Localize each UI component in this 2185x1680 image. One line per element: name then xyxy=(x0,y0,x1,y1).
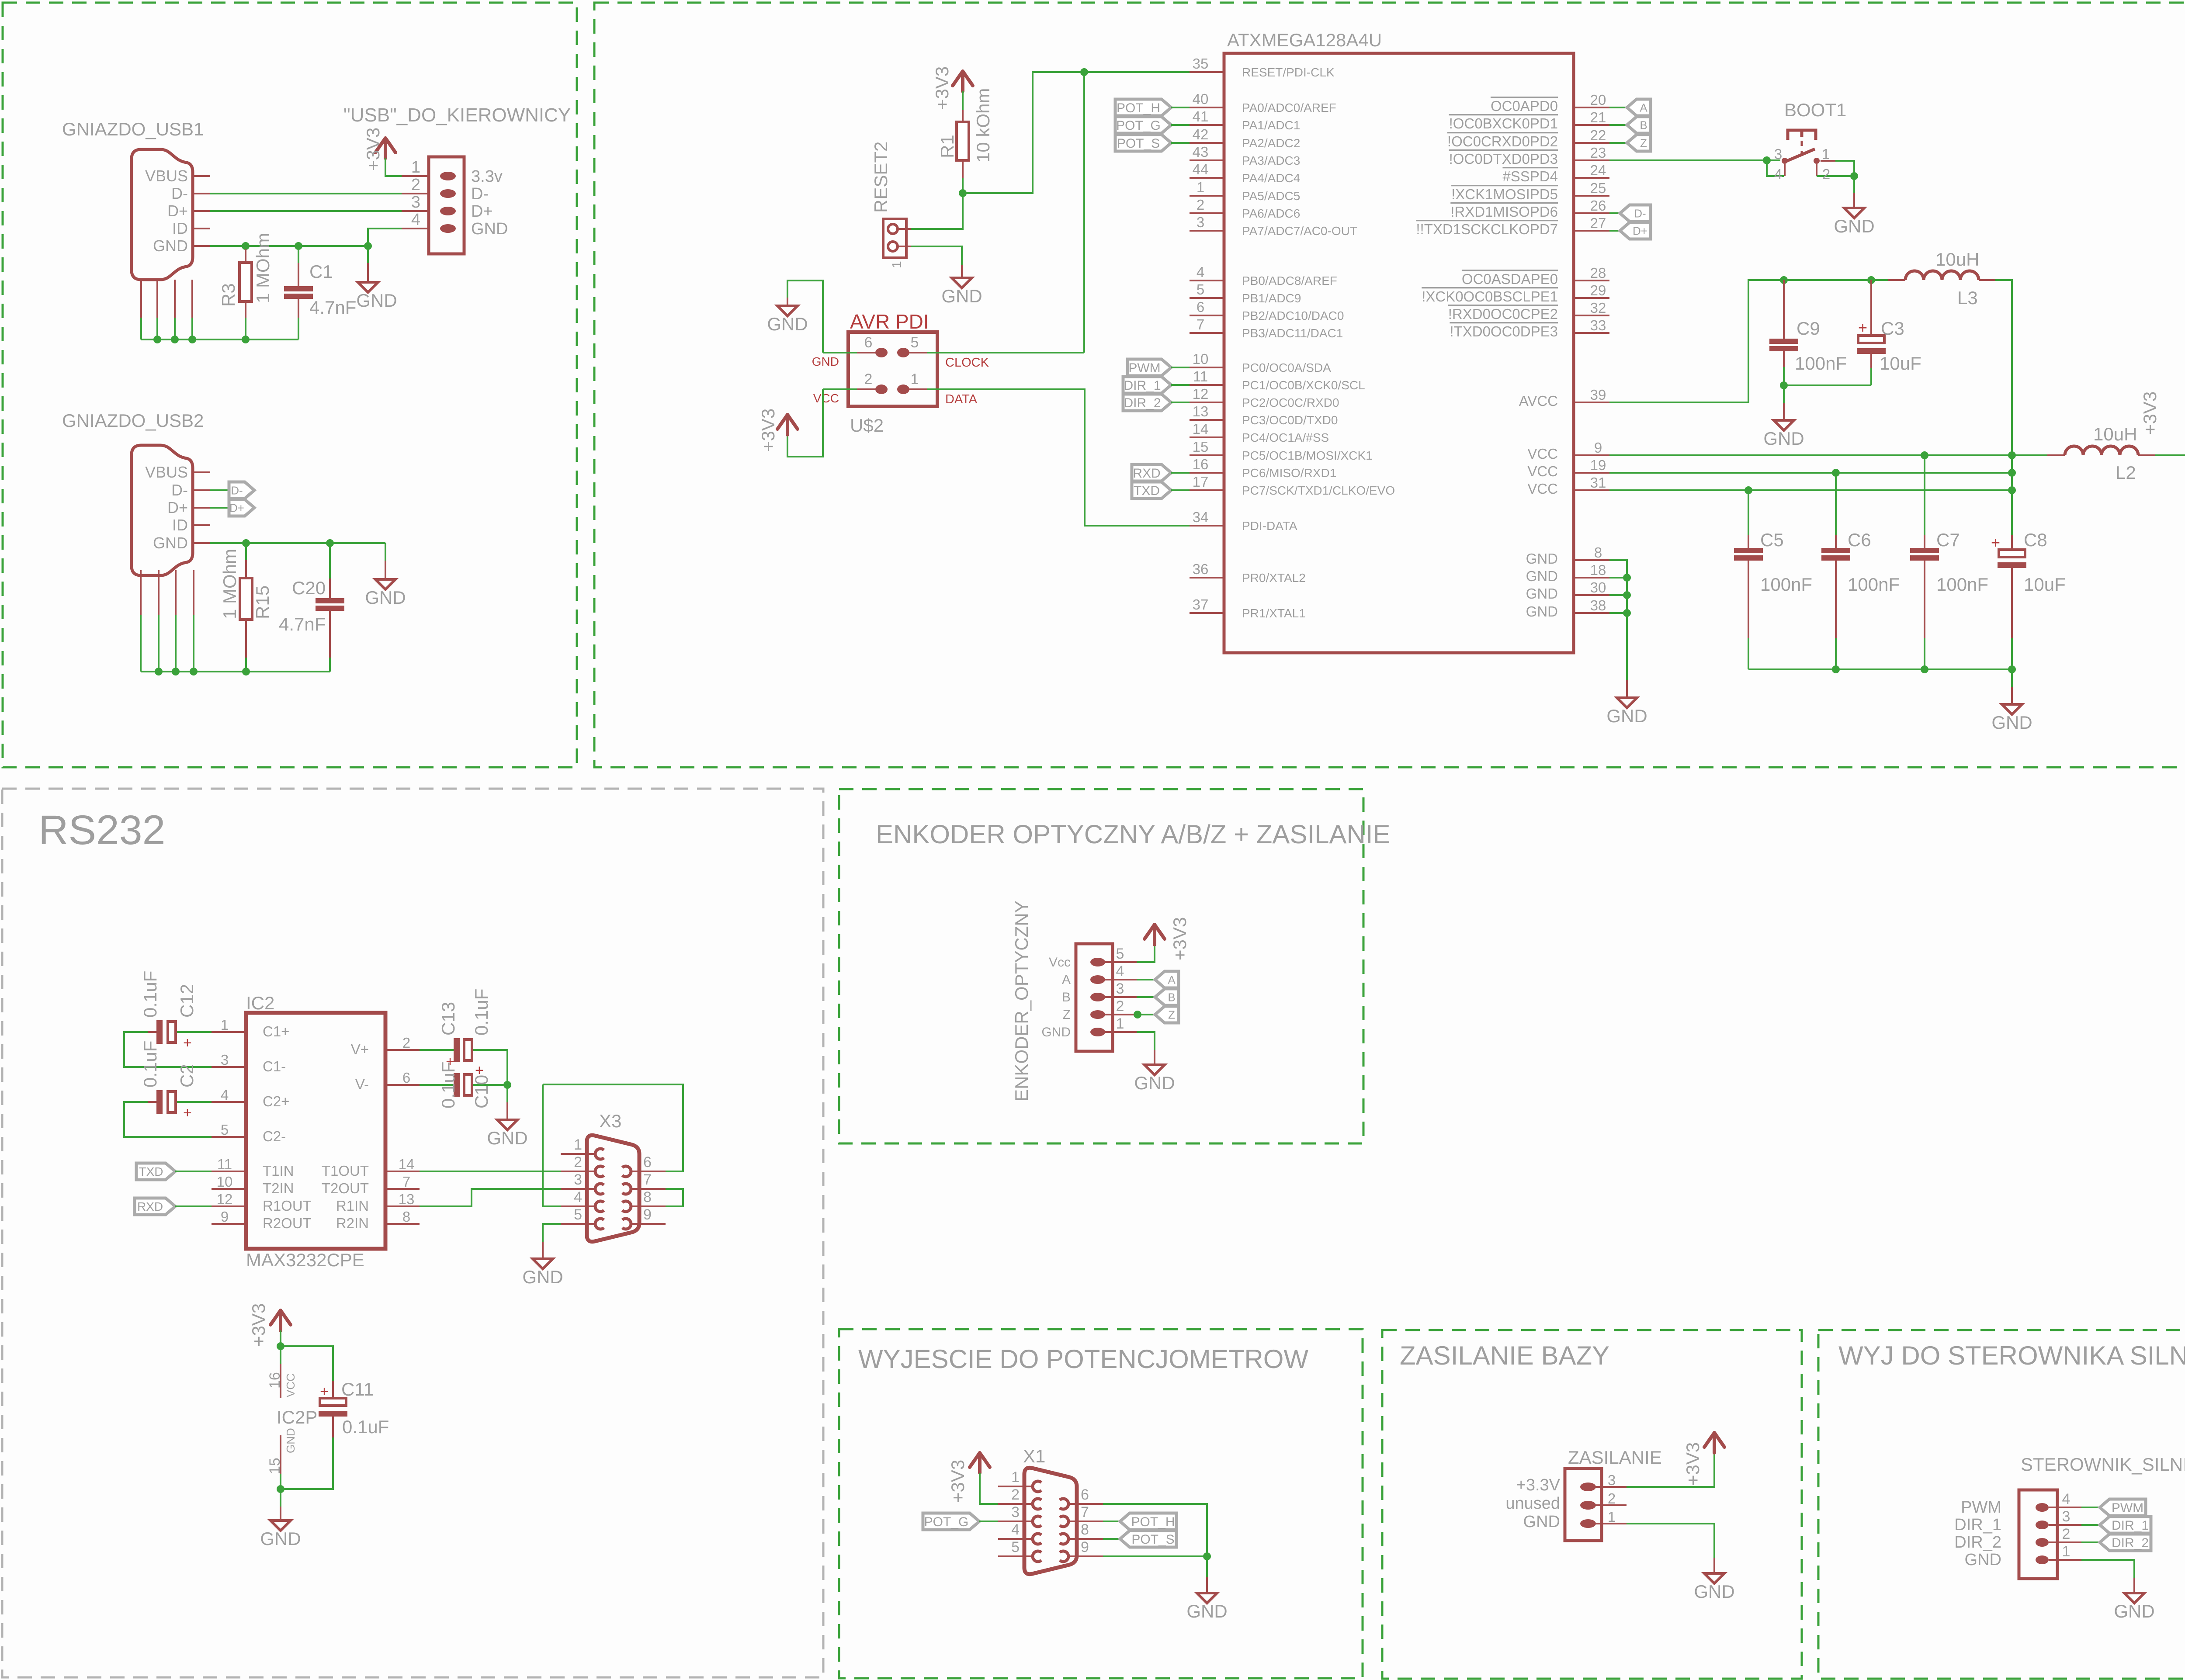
svg-text:3: 3 xyxy=(411,193,420,211)
svg-text:B: B xyxy=(1168,991,1175,1004)
svg-text:GND: GND xyxy=(365,587,406,608)
svg-text:30: 30 xyxy=(1590,579,1606,596)
svg-text:4: 4 xyxy=(574,1189,582,1205)
svg-text:5: 5 xyxy=(1197,281,1204,298)
svg-text:C7: C7 xyxy=(1936,530,1960,550)
svg-text:4: 4 xyxy=(2062,1491,2071,1507)
svg-text:37: 37 xyxy=(1193,596,1209,613)
svg-text:C5: C5 xyxy=(1760,530,1784,550)
svg-text:T1OUT: T1OUT xyxy=(322,1163,369,1179)
svg-text:+: + xyxy=(1858,319,1867,336)
svg-text:5: 5 xyxy=(1011,1539,1020,1555)
svg-text:A: A xyxy=(1062,973,1071,987)
svg-text:PA5/ADC5: PA5/ADC5 xyxy=(1242,189,1300,203)
svg-text:43: 43 xyxy=(1193,144,1209,160)
svg-text:36: 36 xyxy=(1193,561,1209,577)
svg-text:3: 3 xyxy=(1116,980,1124,997)
svg-text:!OC0DTXD0PD3: !OC0DTXD0PD3 xyxy=(1449,151,1558,167)
svg-text:D+: D+ xyxy=(229,501,244,514)
svg-text:GND: GND xyxy=(1763,428,1804,449)
svg-text:1 MOhm: 1 MOhm xyxy=(219,549,240,619)
svg-text:C10: C10 xyxy=(471,1075,492,1108)
svg-text:10uF: 10uF xyxy=(1880,353,1921,374)
svg-text:6: 6 xyxy=(643,1154,652,1171)
svg-text:PA7/ADC7/AC0-OUT: PA7/ADC7/AC0-OUT xyxy=(1242,224,1357,238)
svg-text:A: A xyxy=(1168,973,1176,986)
svg-text:GNIAZDO_USB2: GNIAZDO_USB2 xyxy=(62,410,204,431)
svg-text:PC6/MISO/RXD1: PC6/MISO/RXD1 xyxy=(1242,466,1336,480)
svg-text:GNIAZDO_USB1: GNIAZDO_USB1 xyxy=(62,119,204,139)
svg-text:ENKODER OPTYCZNY A/B/Z + ZASIL: ENKODER OPTYCZNY A/B/Z + ZASILANIE xyxy=(876,820,1391,849)
svg-text:PC5/OC1B/MOSI/XCK1: PC5/OC1B/MOSI/XCK1 xyxy=(1242,449,1373,462)
svg-text:31: 31 xyxy=(1590,475,1606,491)
svg-text:PDI-DATA: PDI-DATA xyxy=(1242,519,1297,533)
svg-text:C1: C1 xyxy=(309,261,333,282)
svg-text:AVR PDI: AVR PDI xyxy=(850,310,929,333)
svg-text:17: 17 xyxy=(1193,474,1209,490)
svg-text:GND: GND xyxy=(1526,585,1558,602)
svg-text:+3V3: +3V3 xyxy=(1682,1442,1703,1486)
svg-text:V+: V+ xyxy=(351,1041,369,1057)
svg-text:GND: GND xyxy=(1694,1581,1734,1602)
svg-text:VBUS: VBUS xyxy=(145,167,188,185)
svg-text:9: 9 xyxy=(643,1206,652,1223)
svg-text:38: 38 xyxy=(1590,597,1606,613)
svg-text:PB1/ADC9: PB1/ADC9 xyxy=(1242,291,1301,305)
svg-text:R1OUT: R1OUT xyxy=(263,1198,312,1214)
svg-text:5: 5 xyxy=(1116,946,1124,962)
svg-text:STEROWNIK_SILNIKA_DC: STEROWNIK_SILNIKA_DC xyxy=(2021,1454,2185,1475)
svg-text:PA2/ADC2: PA2/ADC2 xyxy=(1242,136,1300,150)
svg-text:RESET2: RESET2 xyxy=(871,142,891,213)
svg-text:DIR_1: DIR_1 xyxy=(1954,1516,2001,1534)
svg-text:10 kOhm: 10 kOhm xyxy=(973,88,993,163)
svg-text:PB2/ADC10/DAC0: PB2/ADC10/DAC0 xyxy=(1242,309,1344,322)
svg-text:8: 8 xyxy=(402,1209,410,1225)
svg-text:9: 9 xyxy=(221,1209,229,1225)
svg-text:16: 16 xyxy=(1193,456,1209,472)
svg-text:VCC: VCC xyxy=(1527,481,1558,497)
svg-text:GND: GND xyxy=(260,1528,301,1549)
svg-text:0.1uF: 0.1uF xyxy=(140,1041,160,1088)
svg-text:!XCK1MOSIPD5: !XCK1MOSIPD5 xyxy=(1451,186,1558,202)
svg-text:PA4/ADC4: PA4/ADC4 xyxy=(1242,171,1300,185)
svg-text:C2: C2 xyxy=(177,1064,197,1088)
svg-text:11: 11 xyxy=(217,1156,232,1172)
svg-text:unused: unused xyxy=(1505,1494,1560,1513)
svg-text:C6: C6 xyxy=(1848,530,1871,550)
svg-text:39: 39 xyxy=(1590,387,1606,403)
svg-text:4: 4 xyxy=(1011,1521,1020,1538)
svg-text:"USB"_DO_KIEROWNICY: "USB"_DO_KIEROWNICY xyxy=(343,104,571,126)
svg-text:R1IN: R1IN xyxy=(336,1198,369,1214)
svg-text:1: 1 xyxy=(411,158,420,177)
svg-text:15: 15 xyxy=(267,1458,283,1474)
svg-text:ATXMEGA128A4U: ATXMEGA128A4U xyxy=(1227,30,1382,50)
svg-text:2: 2 xyxy=(574,1154,582,1171)
svg-text:5: 5 xyxy=(574,1206,582,1223)
svg-text:6: 6 xyxy=(402,1070,410,1086)
svg-text:4.7nF: 4.7nF xyxy=(279,614,326,634)
svg-text:GND: GND xyxy=(1991,712,2032,733)
svg-text:1: 1 xyxy=(1822,146,1830,162)
svg-text:D+: D+ xyxy=(471,202,493,221)
svg-text:+3V3: +3V3 xyxy=(2140,391,2160,435)
svg-text:B: B xyxy=(1640,118,1647,132)
svg-text:2: 2 xyxy=(1011,1486,1020,1503)
svg-text:2: 2 xyxy=(411,176,420,194)
svg-text:5: 5 xyxy=(221,1122,229,1138)
svg-text:!RXD1MISOPD6: !RXD1MISOPD6 xyxy=(1450,204,1558,220)
svg-text:Z: Z xyxy=(1640,136,1647,149)
svg-text:PC0/OC0A/SDA: PC0/OC0A/SDA xyxy=(1242,361,1331,374)
svg-text:+3V3: +3V3 xyxy=(947,1460,968,1503)
svg-text:16: 16 xyxy=(267,1372,283,1389)
svg-text:PA3/ADC3: PA3/ADC3 xyxy=(1242,154,1300,167)
svg-text:ZASILANIE: ZASILANIE xyxy=(1568,1447,1662,1468)
svg-text:#SSPD4: #SSPD4 xyxy=(1502,168,1558,184)
svg-text:PWM: PWM xyxy=(2112,1501,2143,1515)
svg-text:D+: D+ xyxy=(167,202,188,220)
svg-text:8: 8 xyxy=(1081,1521,1089,1538)
svg-text:GND: GND xyxy=(2114,1601,2154,1621)
svg-text:3.3v: 3.3v xyxy=(471,167,503,186)
svg-text:14: 14 xyxy=(1193,421,1209,437)
svg-text:L3: L3 xyxy=(1957,288,1978,308)
svg-text:!OC0CRXD0PD2: !OC0CRXD0PD2 xyxy=(1447,133,1558,149)
svg-text:2: 2 xyxy=(402,1035,410,1051)
svg-text:5: 5 xyxy=(911,334,919,351)
svg-text:MAX3232CPE: MAX3232CPE xyxy=(246,1250,364,1270)
svg-text:GND: GND xyxy=(487,1128,527,1148)
svg-text:3: 3 xyxy=(221,1052,229,1068)
svg-text:!OC0BXCK0PD1: !OC0BXCK0PD1 xyxy=(1449,115,1558,132)
svg-text:DIR_1: DIR_1 xyxy=(1124,378,1161,393)
svg-text:PB0/ADC8/AREF: PB0/ADC8/AREF xyxy=(1242,274,1337,288)
svg-text:WYJESCIE DO POTENCJOMETROW: WYJESCIE DO POTENCJOMETROW xyxy=(858,1344,1308,1374)
svg-text:RXD: RXD xyxy=(1133,466,1160,481)
svg-text:33: 33 xyxy=(1590,317,1606,333)
svg-text:!TXD0OC0DPE3: !TXD0OC0DPE3 xyxy=(1450,323,1558,339)
svg-text:3: 3 xyxy=(2062,1508,2071,1525)
svg-text:6: 6 xyxy=(1081,1486,1089,1503)
svg-text:C8: C8 xyxy=(2024,530,2047,550)
svg-text:IC2P: IC2P xyxy=(277,1407,317,1427)
svg-text:+3.3V: +3.3V xyxy=(1516,1476,1561,1494)
svg-text:PC3/OC0D/TXD0: PC3/OC0D/TXD0 xyxy=(1242,413,1338,427)
svg-text:PB3/ADC11/DAC1: PB3/ADC11/DAC1 xyxy=(1242,326,1343,340)
svg-text:D-: D- xyxy=(171,184,188,202)
svg-text:40: 40 xyxy=(1193,91,1209,107)
svg-text:GND: GND xyxy=(812,355,839,368)
svg-text:GND: GND xyxy=(1134,1073,1175,1093)
svg-text:L2: L2 xyxy=(2116,462,2136,483)
svg-text:V-: V- xyxy=(355,1076,369,1092)
svg-text:4: 4 xyxy=(1116,963,1124,980)
svg-text:28: 28 xyxy=(1590,265,1606,281)
svg-text:100nF: 100nF xyxy=(1936,574,1988,595)
svg-text:15: 15 xyxy=(1193,439,1209,455)
svg-text:B: B xyxy=(1062,990,1071,1005)
svg-text:34: 34 xyxy=(1193,509,1209,525)
svg-text:4: 4 xyxy=(1197,264,1204,280)
svg-text:Z: Z xyxy=(1168,1008,1175,1021)
svg-text:1: 1 xyxy=(2062,1543,2071,1560)
svg-text:2: 2 xyxy=(2062,1526,2071,1542)
svg-text:TXD: TXD xyxy=(139,1165,163,1178)
svg-text:VCC: VCC xyxy=(284,1373,297,1397)
svg-text:GND: GND xyxy=(153,534,188,552)
svg-text:41: 41 xyxy=(1193,108,1209,125)
svg-text:AVCC: AVCC xyxy=(1519,393,1558,409)
svg-text:GND: GND xyxy=(1526,568,1558,584)
svg-text:A: A xyxy=(1640,101,1647,114)
svg-text:PWM: PWM xyxy=(1961,1498,2001,1517)
svg-text:GND: GND xyxy=(1523,1513,1560,1531)
svg-text:1 MOhm: 1 MOhm xyxy=(253,233,273,303)
svg-text:D+: D+ xyxy=(1633,224,1647,237)
svg-text:C3: C3 xyxy=(1881,318,1904,339)
svg-text:4: 4 xyxy=(1774,166,1782,182)
svg-text:C2+: C2+ xyxy=(263,1093,289,1109)
svg-text:PC7/SCK/TXD1/CLKO/EVO: PC7/SCK/TXD1/CLKO/EVO xyxy=(1242,484,1395,497)
svg-text:25: 25 xyxy=(1590,180,1606,196)
svg-text:8: 8 xyxy=(643,1189,652,1205)
svg-text:POT_S: POT_S xyxy=(1131,1532,1174,1547)
svg-text:Z: Z xyxy=(1063,1008,1071,1022)
svg-text:13: 13 xyxy=(399,1191,415,1207)
svg-text:18: 18 xyxy=(1590,562,1606,578)
svg-text:+: + xyxy=(183,1035,192,1051)
svg-text:GND: GND xyxy=(767,314,808,334)
svg-text:1: 1 xyxy=(1116,1015,1124,1032)
svg-text:6: 6 xyxy=(1197,299,1204,315)
svg-text:PA0/ADC0/AREF: PA0/ADC0/AREF xyxy=(1242,101,1336,114)
svg-text:PA6/ADC6: PA6/ADC6 xyxy=(1242,207,1300,220)
svg-text:26: 26 xyxy=(1590,197,1606,214)
svg-text:C12: C12 xyxy=(177,984,197,1018)
svg-text:R2IN: R2IN xyxy=(336,1215,369,1231)
svg-text:VBUS: VBUS xyxy=(145,463,188,481)
svg-text:X3: X3 xyxy=(599,1111,621,1131)
svg-text:GND: GND xyxy=(941,286,982,306)
svg-text:0.1uF: 0.1uF xyxy=(140,971,160,1018)
svg-text:1: 1 xyxy=(1011,1469,1020,1486)
svg-text:2: 2 xyxy=(1608,1490,1616,1507)
svg-text:RS232: RS232 xyxy=(38,807,165,853)
svg-text:R2OUT: R2OUT xyxy=(263,1215,312,1231)
svg-text:D+: D+ xyxy=(167,499,188,516)
svg-text:21: 21 xyxy=(1590,109,1606,125)
svg-text:GND: GND xyxy=(153,237,188,255)
svg-text:3: 3 xyxy=(1608,1472,1616,1488)
svg-text:32: 32 xyxy=(1590,300,1606,316)
svg-text:RXD: RXD xyxy=(137,1200,163,1213)
svg-text:35: 35 xyxy=(1193,55,1209,72)
svg-text:C1-: C1- xyxy=(263,1058,286,1074)
svg-text:OC0APD0: OC0APD0 xyxy=(1491,98,1558,114)
svg-text:U$2: U$2 xyxy=(850,415,884,436)
svg-text:100nF: 100nF xyxy=(1795,353,1847,374)
svg-text:19: 19 xyxy=(1590,457,1606,473)
svg-text:23: 23 xyxy=(1590,145,1606,161)
svg-text:IC2: IC2 xyxy=(246,993,274,1013)
svg-text:ID: ID xyxy=(172,219,188,237)
svg-text:GND: GND xyxy=(1186,1601,1227,1621)
svg-text:R15: R15 xyxy=(252,585,273,619)
svg-text:PC1/OC0B/XCK0/SCL: PC1/OC0B/XCK0/SCL xyxy=(1242,378,1365,392)
svg-text:X1: X1 xyxy=(1023,1446,1045,1466)
svg-text:C9: C9 xyxy=(1797,318,1820,339)
svg-text:1: 1 xyxy=(890,261,904,268)
svg-text:DIR_2: DIR_2 xyxy=(1954,1533,2001,1552)
svg-text:12: 12 xyxy=(217,1191,233,1207)
svg-text:DIR_2: DIR_2 xyxy=(2112,1536,2149,1550)
svg-text:3: 3 xyxy=(1197,214,1204,230)
svg-text:20: 20 xyxy=(1590,92,1606,108)
svg-text:24: 24 xyxy=(1590,162,1606,178)
svg-text:GND: GND xyxy=(1041,1025,1071,1039)
svg-text:ZASILANIE BAZY: ZASILANIE BAZY xyxy=(1400,1341,1609,1370)
svg-text:PC2/OC0C/RXD0: PC2/OC0C/RXD0 xyxy=(1242,396,1339,409)
svg-text:R1: R1 xyxy=(937,135,957,158)
svg-text:10uF: 10uF xyxy=(2024,574,2066,595)
svg-text:RESET/PDI-CLK: RESET/PDI-CLK xyxy=(1242,66,1335,79)
svg-text:1: 1 xyxy=(1608,1509,1616,1525)
svg-text:CLOCK: CLOCK xyxy=(945,356,989,370)
svg-text:4: 4 xyxy=(411,211,420,229)
svg-text:6: 6 xyxy=(864,334,873,351)
svg-text:PR0/XTAL2: PR0/XTAL2 xyxy=(1242,571,1306,585)
svg-text:GND: GND xyxy=(471,220,508,238)
svg-text:0.1uF: 0.1uF xyxy=(471,989,492,1036)
svg-text:VCC: VCC xyxy=(1527,463,1558,479)
svg-text:10: 10 xyxy=(217,1174,233,1190)
svg-text:+: + xyxy=(1991,533,2000,551)
svg-text:OC0ASDAPE0: OC0ASDAPE0 xyxy=(1462,271,1558,287)
svg-text:13: 13 xyxy=(1193,403,1209,419)
svg-text:D-: D- xyxy=(171,481,188,499)
svg-text:DATA: DATA xyxy=(945,392,978,406)
svg-text:0.1uF: 0.1uF xyxy=(342,1417,389,1437)
svg-text:PR1/XTAL1: PR1/XTAL1 xyxy=(1242,606,1306,620)
svg-text:T2OUT: T2OUT xyxy=(322,1180,369,1196)
svg-text:VCC: VCC xyxy=(1527,446,1558,462)
svg-text:VCC: VCC xyxy=(813,391,839,405)
svg-text:POT_S: POT_S xyxy=(1117,136,1160,151)
svg-text:12: 12 xyxy=(1193,386,1209,402)
svg-text:+: + xyxy=(183,1105,192,1121)
svg-text:T2IN: T2IN xyxy=(263,1180,294,1196)
svg-text:100nF: 100nF xyxy=(1848,574,1900,595)
svg-text:C13: C13 xyxy=(438,1002,458,1036)
svg-text:+3V3: +3V3 xyxy=(932,66,952,110)
svg-text:10uH: 10uH xyxy=(2093,424,2137,444)
svg-text:8: 8 xyxy=(1594,544,1602,561)
svg-text:2: 2 xyxy=(1116,998,1124,1015)
svg-text:!RXD0OC0CPE2: !RXD0OC0CPE2 xyxy=(1448,306,1558,322)
svg-text:POT_G: POT_G xyxy=(924,1515,969,1529)
svg-text:GND: GND xyxy=(356,290,397,311)
svg-text:BOOT1: BOOT1 xyxy=(1784,100,1846,120)
svg-text:!XCK0OC0BSCLPE1: !XCK0OC0BSCLPE1 xyxy=(1422,288,1558,305)
svg-text:3: 3 xyxy=(1011,1504,1020,1521)
svg-text:Vcc: Vcc xyxy=(1049,955,1071,970)
svg-text:PA1/ADC1: PA1/ADC1 xyxy=(1242,118,1300,132)
svg-text:D-: D- xyxy=(471,185,489,203)
svg-text:44: 44 xyxy=(1193,161,1209,177)
svg-text:D-: D- xyxy=(1634,207,1646,220)
svg-text:9: 9 xyxy=(1594,440,1602,456)
svg-text:3: 3 xyxy=(1774,146,1782,162)
svg-text:GND: GND xyxy=(522,1267,563,1287)
svg-text:GND: GND xyxy=(284,1428,297,1453)
svg-text:0.1uF: 0.1uF xyxy=(438,1062,458,1108)
svg-text:1: 1 xyxy=(574,1136,582,1153)
svg-text:POT_H: POT_H xyxy=(1131,1515,1175,1529)
svg-text:10: 10 xyxy=(1193,351,1209,367)
svg-text:14: 14 xyxy=(399,1156,415,1172)
svg-text:PC4/OC1A/#SS: PC4/OC1A/#SS xyxy=(1242,431,1329,444)
svg-text:GND: GND xyxy=(1834,216,1874,236)
svg-text:29: 29 xyxy=(1590,282,1606,298)
svg-text:27: 27 xyxy=(1590,215,1606,231)
svg-text:C1+: C1+ xyxy=(263,1023,289,1039)
svg-text:10uH: 10uH xyxy=(1935,249,1979,270)
svg-text:42: 42 xyxy=(1193,126,1209,142)
svg-text:1: 1 xyxy=(221,1017,229,1033)
svg-text:WYJ DO STEROWNIKA SILNIKA DC: WYJ DO STEROWNIKA SILNIKA DC xyxy=(1838,1341,2185,1370)
svg-text:7: 7 xyxy=(1081,1504,1089,1521)
svg-text:4: 4 xyxy=(221,1087,229,1103)
svg-text:+3V3: +3V3 xyxy=(1169,917,1190,960)
svg-text:4.7nF: 4.7nF xyxy=(309,297,356,318)
svg-text:7: 7 xyxy=(1197,316,1204,333)
svg-text:+3V3: +3V3 xyxy=(758,409,778,452)
svg-text:C11: C11 xyxy=(341,1379,374,1399)
svg-text:+3V3: +3V3 xyxy=(363,128,383,171)
svg-text:!!TXD1SCKCLKOPD7: !!TXD1SCKCLKOPD7 xyxy=(1416,221,1558,237)
svg-text:GND: GND xyxy=(1606,706,1647,726)
svg-text:GND: GND xyxy=(1526,603,1558,620)
svg-text:+3V3: +3V3 xyxy=(248,1303,269,1347)
svg-text:TXD: TXD xyxy=(1134,484,1160,498)
svg-text:GND: GND xyxy=(1526,551,1558,567)
svg-text:100nF: 100nF xyxy=(1760,574,1812,595)
svg-text:C20: C20 xyxy=(292,578,326,598)
svg-text:+: + xyxy=(320,1383,329,1400)
svg-text:GND: GND xyxy=(1965,1551,2001,1569)
svg-text:DIR_2: DIR_2 xyxy=(1124,396,1161,410)
svg-text:T1IN: T1IN xyxy=(263,1163,294,1179)
svg-text:ID: ID xyxy=(172,516,188,534)
svg-text:7: 7 xyxy=(643,1171,652,1188)
svg-text:PWM: PWM xyxy=(1128,361,1160,375)
svg-text:2: 2 xyxy=(1822,166,1830,182)
svg-text:DIR_1: DIR_1 xyxy=(2112,1518,2149,1533)
svg-text:D-: D- xyxy=(231,484,243,497)
svg-text:7: 7 xyxy=(402,1174,410,1190)
svg-text:3: 3 xyxy=(574,1171,582,1188)
svg-text:22: 22 xyxy=(1590,127,1606,143)
svg-text:C2-: C2- xyxy=(263,1128,286,1144)
svg-text:2: 2 xyxy=(1197,197,1204,213)
svg-text:POT_G: POT_G xyxy=(1116,118,1161,133)
svg-text:9: 9 xyxy=(1081,1539,1089,1555)
svg-text:11: 11 xyxy=(1193,368,1208,384)
svg-text:2: 2 xyxy=(864,371,873,388)
svg-text:1: 1 xyxy=(911,371,919,388)
